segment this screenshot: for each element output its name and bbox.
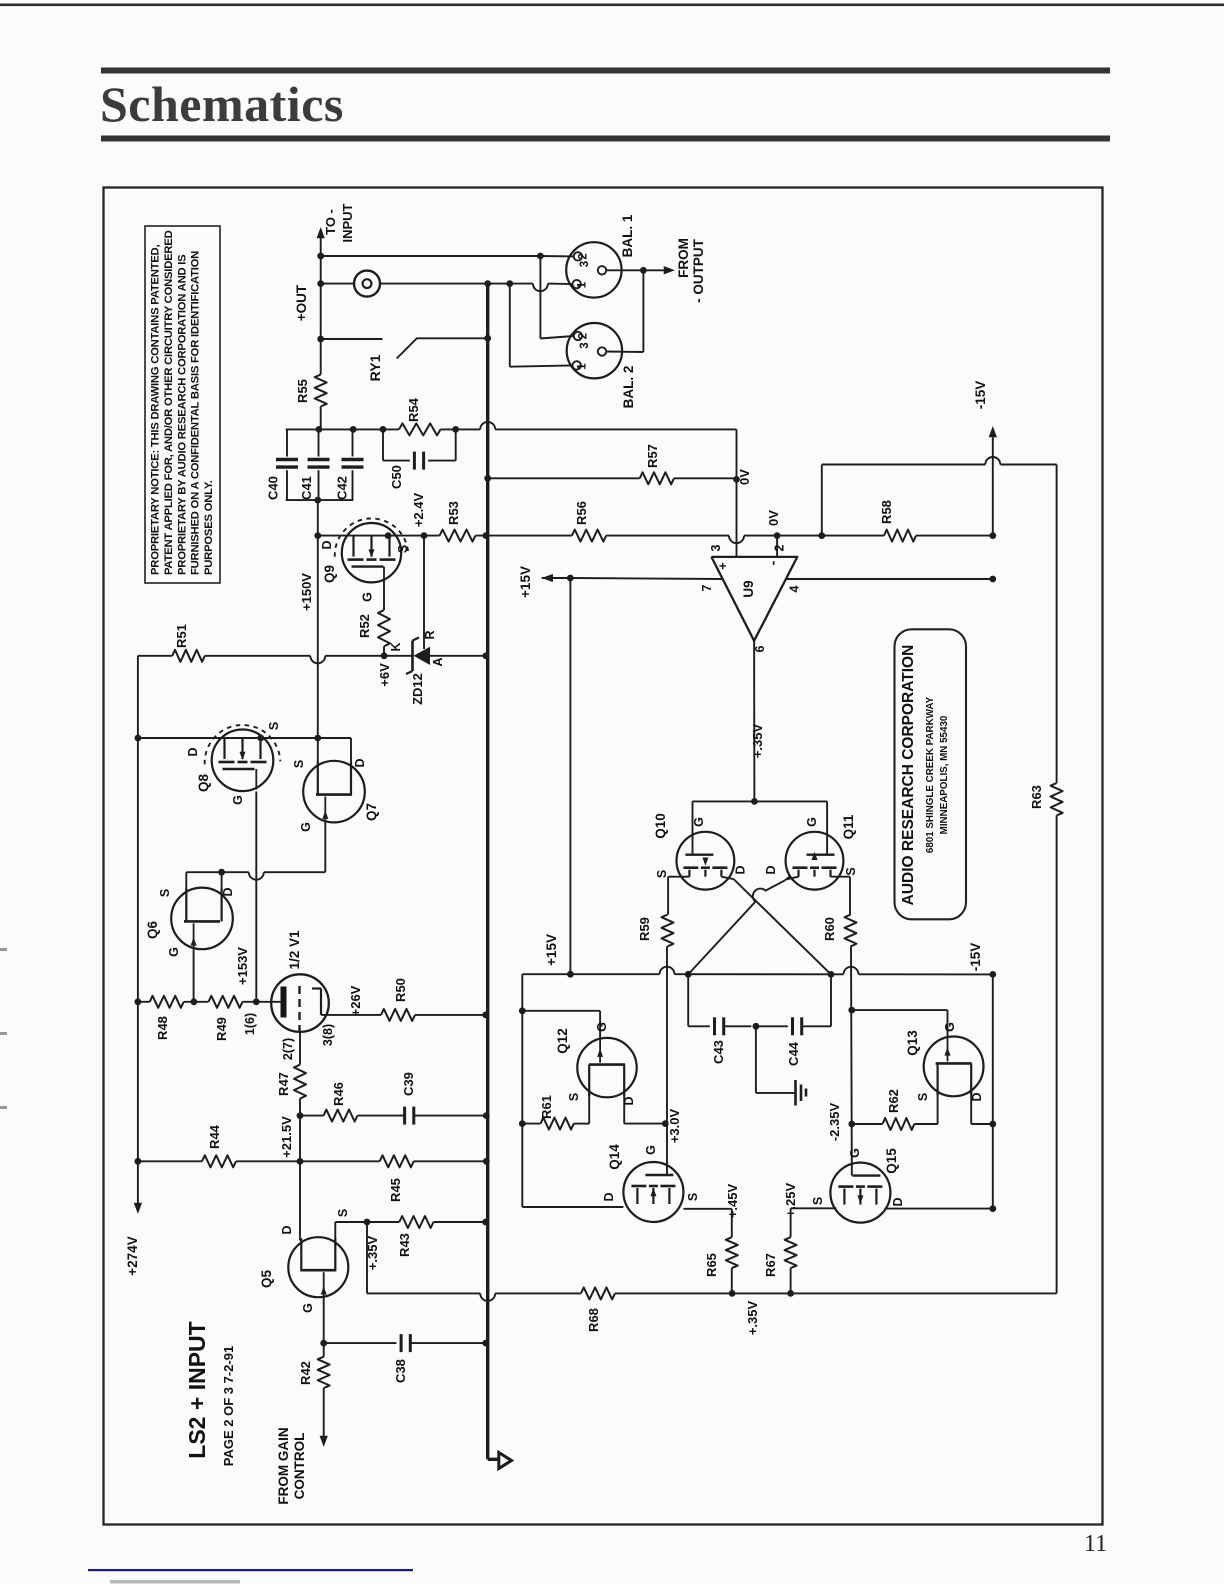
svg-text:RY1: RY1 <box>367 354 383 381</box>
svg-text:BAL. 1: BAL. 1 <box>620 214 635 257</box>
svg-text:PROPRIETARY NOTICE: THIS DRAW: PROPRIETARY NOTICE: THIS DRAWING CONTAIN… <box>150 245 162 575</box>
svg-text:2: 2 <box>773 544 787 551</box>
svg-text:Q8: Q8 <box>196 774 211 793</box>
svg-text:+2.4V: +2.4V <box>411 493 426 528</box>
svg-text:+26V: +26V <box>348 985 363 1016</box>
svg-text:Q15: Q15 <box>884 1148 899 1174</box>
svg-text:+.35V: +.35V <box>745 1301 760 1336</box>
svg-text:3: 3 <box>579 261 591 267</box>
svg-text:R49: R49 <box>214 1017 229 1041</box>
svg-text:ZD12: ZD12 <box>410 673 425 705</box>
svg-text:R68: R68 <box>586 1308 601 1332</box>
svg-text:S: S <box>336 1209 350 1217</box>
svg-text:R50: R50 <box>393 978 408 1002</box>
svg-text:C38: C38 <box>393 1359 408 1383</box>
svg-text:G: G <box>692 817 706 827</box>
svg-text:-2.35V: -2.35V <box>827 1103 842 1142</box>
svg-text:C39: C39 <box>401 1072 416 1096</box>
svg-text:AUDIO RESEARCH CORPORATION: AUDIO RESEARCH CORPORATION <box>900 645 917 906</box>
svg-text:+274V: +274V <box>125 1236 140 1275</box>
svg-text:G: G <box>231 795 245 805</box>
svg-text:R65: R65 <box>704 1253 719 1277</box>
svg-text:C42: C42 <box>335 476 350 500</box>
svg-text:-15V: -15V <box>973 381 988 410</box>
svg-text:D: D <box>602 1192 616 1201</box>
svg-text:+: + <box>715 562 730 570</box>
svg-text:G: G <box>299 822 313 832</box>
svg-text:D: D <box>891 1197 905 1206</box>
svg-text:Q14: Q14 <box>607 1144 622 1170</box>
svg-text:R44: R44 <box>207 1124 222 1149</box>
svg-text:INPUT: INPUT <box>340 203 355 242</box>
svg-text:R42: R42 <box>298 1361 313 1385</box>
svg-text:Q12: Q12 <box>555 1028 570 1054</box>
svg-text:S: S <box>686 1193 700 1201</box>
svg-text:R67: R67 <box>763 1253 778 1277</box>
svg-text:Q9: Q9 <box>322 565 337 583</box>
svg-text:7: 7 <box>700 584 714 591</box>
svg-text:S: S <box>844 867 858 875</box>
svg-text:D: D <box>970 1092 984 1101</box>
svg-text:LS2 + INPUT: LS2 + INPUT <box>184 1321 210 1458</box>
svg-text:G: G <box>644 1145 658 1155</box>
svg-text:+OUT: +OUT <box>294 284 309 321</box>
svg-text:3(8): 3(8) <box>321 1024 335 1046</box>
svg-text:A: A <box>431 657 445 666</box>
svg-text:R60: R60 <box>822 917 837 941</box>
svg-text:-: - <box>765 560 781 565</box>
svg-text:C44: C44 <box>786 1041 801 1066</box>
svg-text:1(6): 1(6) <box>243 1013 257 1035</box>
svg-text:R48: R48 <box>155 1016 170 1040</box>
svg-text:Q11: Q11 <box>841 814 856 839</box>
svg-text:MINNEAPOLIS, MN 55430: MINNEAPOLIS, MN 55430 <box>939 715 950 834</box>
svg-text:R56: R56 <box>574 501 589 525</box>
svg-text:D: D <box>734 865 748 874</box>
svg-text:R59: R59 <box>637 917 652 941</box>
svg-text:+21.5V: +21.5V <box>279 1116 294 1158</box>
svg-text:BAL. 2: BAL. 2 <box>621 366 636 409</box>
svg-text:Schematics: Schematics <box>100 76 344 132</box>
svg-text:Q13: Q13 <box>905 1030 920 1056</box>
svg-text:C43: C43 <box>711 1040 726 1064</box>
svg-text:G: G <box>943 1022 957 1032</box>
svg-text:FURNISHED ON A CONFIDENTAL BAS: FURNISHED ON A CONFIDENTAL BASIS FOR IDE… <box>190 251 202 575</box>
svg-text:D: D <box>764 865 778 874</box>
svg-text:D: D <box>622 1096 636 1105</box>
svg-text:11: 11 <box>1084 1531 1107 1557</box>
svg-text:0V: 0V <box>766 510 781 526</box>
svg-text:R62: R62 <box>886 1089 901 1113</box>
svg-text:R45: R45 <box>388 1178 403 1202</box>
svg-text:Q5: Q5 <box>259 1270 274 1289</box>
svg-text:3: 3 <box>579 342 591 348</box>
svg-text:S: S <box>396 545 410 553</box>
svg-text:C50: C50 <box>389 465 404 489</box>
svg-text:2(7): 2(7) <box>281 1038 295 1060</box>
svg-text:D: D <box>320 540 334 549</box>
svg-text:1: 1 <box>577 363 589 370</box>
svg-text:S: S <box>916 1093 930 1101</box>
svg-text:6: 6 <box>753 645 767 652</box>
svg-text:+15V: +15V <box>544 934 559 966</box>
svg-text:D: D <box>186 747 200 756</box>
svg-text:FROM GAIN: FROM GAIN <box>276 1427 291 1504</box>
svg-text:2: 2 <box>578 333 590 339</box>
svg-text:G: G <box>595 1022 609 1032</box>
svg-text:2: 2 <box>578 253 590 259</box>
svg-text:+153V: +153V <box>235 947 250 985</box>
svg-text:Q6: Q6 <box>145 921 160 940</box>
svg-text:G: G <box>167 947 181 957</box>
svg-text:R: R <box>423 630 437 639</box>
svg-text:C40: C40 <box>266 476 281 500</box>
svg-text:R47: R47 <box>276 1072 291 1096</box>
svg-text:1/2 V1: 1/2 V1 <box>287 930 302 970</box>
svg-text:1: 1 <box>577 281 589 288</box>
svg-text:CONTROL: CONTROL <box>292 1433 307 1500</box>
svg-text:PAGE 2 OF 3 7-2-91: PAGE 2 OF 3 7-2-91 <box>221 1346 236 1466</box>
svg-text:R58: R58 <box>879 500 894 524</box>
svg-text:G: G <box>805 817 819 827</box>
svg-text:TO -: TO - <box>323 209 338 235</box>
svg-text:R51: R51 <box>174 624 189 648</box>
svg-text:PATENT APPLIED FOR, AND/OR OTH: PATENT APPLIED FOR, AND/OR OTHER CIRCUIT… <box>163 230 175 575</box>
svg-text:R43: R43 <box>397 1233 412 1257</box>
svg-text:S: S <box>158 889 172 897</box>
svg-text:3: 3 <box>709 544 723 551</box>
svg-text:G: G <box>361 592 375 602</box>
svg-text:+15V: +15V <box>518 566 533 598</box>
svg-text:+.35V: +.35V <box>750 724 765 759</box>
svg-text:+6V: +6V <box>377 663 392 687</box>
svg-text:R61: R61 <box>539 1095 554 1119</box>
svg-text:S: S <box>811 1197 825 1205</box>
svg-text:FROM: FROM <box>676 238 691 278</box>
svg-text:R63: R63 <box>1029 785 1044 809</box>
svg-text:PURPOSES ONLY.: PURPOSES ONLY. <box>203 480 215 575</box>
svg-text:R54: R54 <box>406 397 421 422</box>
svg-text:R53: R53 <box>446 501 461 525</box>
svg-text:6801 SHINGLE CREEK PARKWAY: 6801 SHINGLE CREEK PARKWAY <box>925 696 936 853</box>
svg-text:D: D <box>221 887 235 896</box>
svg-text:D: D <box>280 1225 294 1234</box>
svg-text:K: K <box>389 642 403 651</box>
svg-text:G: G <box>848 1148 862 1158</box>
svg-text:R52: R52 <box>357 614 372 638</box>
svg-text:S: S <box>567 1093 581 1101</box>
svg-text:R46: R46 <box>331 1082 346 1106</box>
svg-text:S: S <box>267 722 281 730</box>
svg-text:G: G <box>301 1303 315 1313</box>
svg-text:+3.0V: +3.0V <box>667 1109 682 1144</box>
svg-text:R55: R55 <box>295 379 310 403</box>
svg-text:Q10: Q10 <box>653 813 668 839</box>
svg-text:-15V: -15V <box>968 943 983 972</box>
svg-text:PROPRIETARY BY AUDIO RESEARCH: PROPRIETARY BY AUDIO RESEARCH CORPORATIO… <box>176 254 188 575</box>
svg-text:- OUTPUT: - OUTPUT <box>691 238 706 302</box>
svg-text:4: 4 <box>788 585 802 592</box>
svg-text:Q7: Q7 <box>364 803 379 821</box>
svg-text:S: S <box>655 870 669 878</box>
svg-text:0V: 0V <box>737 469 752 485</box>
svg-text:+150V: +150V <box>299 573 314 611</box>
svg-text:S: S <box>292 760 306 768</box>
svg-text:D: D <box>353 758 367 767</box>
svg-text:R57: R57 <box>645 444 660 468</box>
svg-text:C41: C41 <box>299 476 314 500</box>
svg-text:U9: U9 <box>741 580 756 597</box>
